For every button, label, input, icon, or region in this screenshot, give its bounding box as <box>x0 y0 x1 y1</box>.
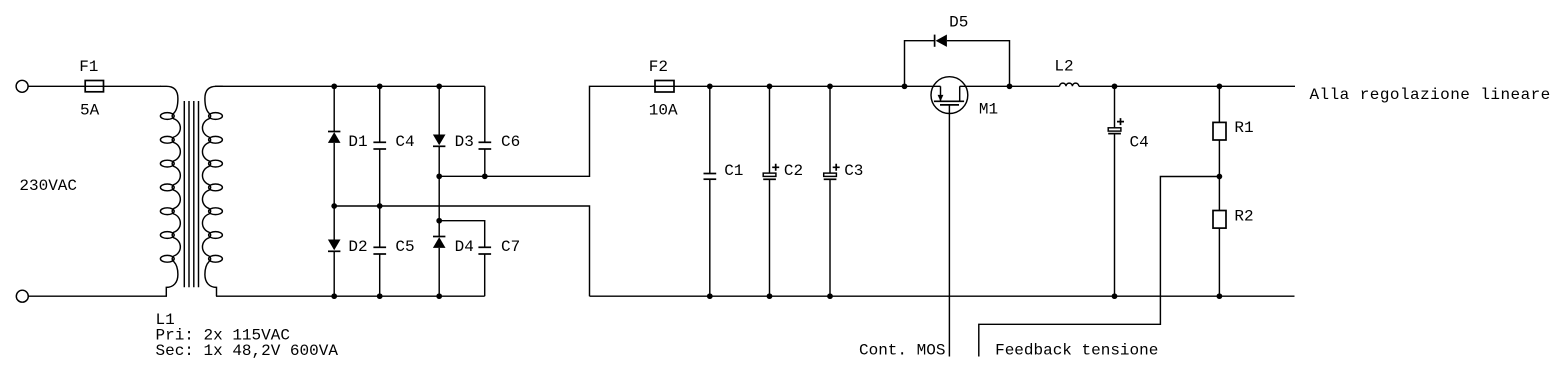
node: C4-C5 middle <box>377 203 383 209</box>
svg-text:Alla regolazione lineare: Alla regolazione lineare <box>1310 86 1551 104</box>
svg-text:M1: M1 <box>979 101 998 119</box>
wire: secondary top rail <box>215 85 485 87</box>
diode D4 <box>433 176 446 296</box>
transformer L1 secondary loop turns <box>209 113 223 263</box>
resistor R1 <box>1213 86 1226 176</box>
inductor L2 <box>1060 83 1079 86</box>
node: C2 bottom <box>767 293 773 299</box>
node: C1 bottom <box>707 293 713 299</box>
transformer L1 primary loop turns <box>160 113 174 263</box>
capacitor C6 <box>479 86 492 176</box>
node: D1-D2 middle <box>331 203 337 209</box>
node: D1 top <box>331 83 337 89</box>
svg-text:R2: R2 <box>1234 207 1253 225</box>
node: C3 top <box>827 83 833 89</box>
wire: bottom terminal to transformer primary <box>29 295 168 297</box>
svg-text:D4: D4 <box>455 238 474 256</box>
mosfet M1 <box>931 77 968 114</box>
diode D1 <box>328 86 341 206</box>
svg-text:R1: R1 <box>1234 119 1253 137</box>
svg-text:5A: 5A <box>80 101 100 119</box>
capacitor C4 (rectifier) <box>373 86 386 206</box>
node: R1-R2 junction <box>1217 174 1223 180</box>
node: D4 bottom <box>436 293 442 299</box>
diode D2 <box>328 206 341 296</box>
svg-text:L2: L2 <box>1054 58 1073 76</box>
svg-text:Feedback tensione: Feedback tensione <box>995 342 1158 360</box>
svg-text:C1: C1 <box>724 162 743 180</box>
node: R1 top <box>1217 83 1223 89</box>
svg-text:C6: C6 <box>501 133 520 151</box>
capacitor C1 <box>704 86 717 296</box>
svg-text:D1: D1 <box>348 133 367 151</box>
capacitor C5 <box>373 206 386 296</box>
wire: secondary bottom rail <box>216 295 485 297</box>
capacitor C4 (output) <box>1108 86 1124 296</box>
svg-text:Sec: 1x 48,2V 600VA: Sec: 1x 48,2V 600VA <box>156 342 339 360</box>
diode D3 <box>433 86 446 176</box>
node: C6 bottom <box>482 173 488 179</box>
node: C1 top <box>707 83 713 89</box>
wire: L2 to output <box>1079 85 1295 87</box>
svg-text:10A: 10A <box>649 101 678 119</box>
node: C4 top <box>377 83 383 89</box>
svg-text:230VAC: 230VAC <box>19 177 77 195</box>
svg-text:Cont. MOS: Cont. MOS <box>859 342 945 360</box>
wire: middle rail <box>334 206 589 296</box>
wire: rectifier positive output to F2 rail <box>439 86 655 176</box>
wire: fuse F1 to transformer primary <box>104 85 162 87</box>
transformer L1 primary winding <box>160 86 180 296</box>
wire: M1 source to L2 <box>960 85 1060 87</box>
node: C3 bottom <box>827 293 833 299</box>
svg-text:C4: C4 <box>395 133 414 151</box>
node: C4 output top <box>1112 83 1118 89</box>
wire: feedback from R1/R2 divider <box>979 177 1220 357</box>
node: C2 top <box>767 83 773 89</box>
svg-text:D2: D2 <box>348 238 367 256</box>
node: C5 bottom <box>377 293 383 299</box>
svg-text:C4: C4 <box>1130 134 1149 152</box>
node: D3 top <box>436 83 442 89</box>
svg-text:F1: F1 <box>79 58 98 76</box>
fuse F2 <box>655 81 674 93</box>
node: D5 anode <box>902 83 908 89</box>
svg-text:F2: F2 <box>649 58 668 76</box>
node: C4 output bottom <box>1112 293 1118 299</box>
resistor R2 <box>1213 177 1226 297</box>
node: R2 bottom <box>1217 293 1223 299</box>
wire: negative bottom rail <box>590 295 1295 297</box>
wire: D5 bypass loop <box>905 41 1010 87</box>
node: D4-C7 junction <box>436 218 442 224</box>
svg-text:C3: C3 <box>844 162 863 180</box>
svg-text:D3: D3 <box>455 133 474 151</box>
svg-text:C7: C7 <box>501 238 520 256</box>
node: D5 cathode <box>1007 83 1013 89</box>
transformer L1 secondary winding <box>202 86 222 296</box>
fuse F1 <box>85 81 103 92</box>
wire: M1 gate lead to Cont. MOS <box>948 105 950 357</box>
node: D2 bottom <box>331 293 337 299</box>
svg-text:C2: C2 <box>784 162 803 180</box>
transformer L1 core <box>184 101 198 287</box>
svg-text:D5: D5 <box>949 14 968 32</box>
capacitor C3 <box>824 86 840 296</box>
terminal top-left <box>16 80 28 92</box>
wire: terminal to fuse F1 <box>28 85 85 87</box>
capacitor C2 <box>763 86 779 296</box>
wire: F2 to M1 drain rail <box>674 85 941 87</box>
diode D5 <box>935 35 947 47</box>
capacitor C7 <box>439 221 491 297</box>
terminal bottom-left <box>16 290 28 302</box>
node: D3-C6 junction <box>436 173 442 179</box>
svg-text:C5: C5 <box>395 238 414 256</box>
